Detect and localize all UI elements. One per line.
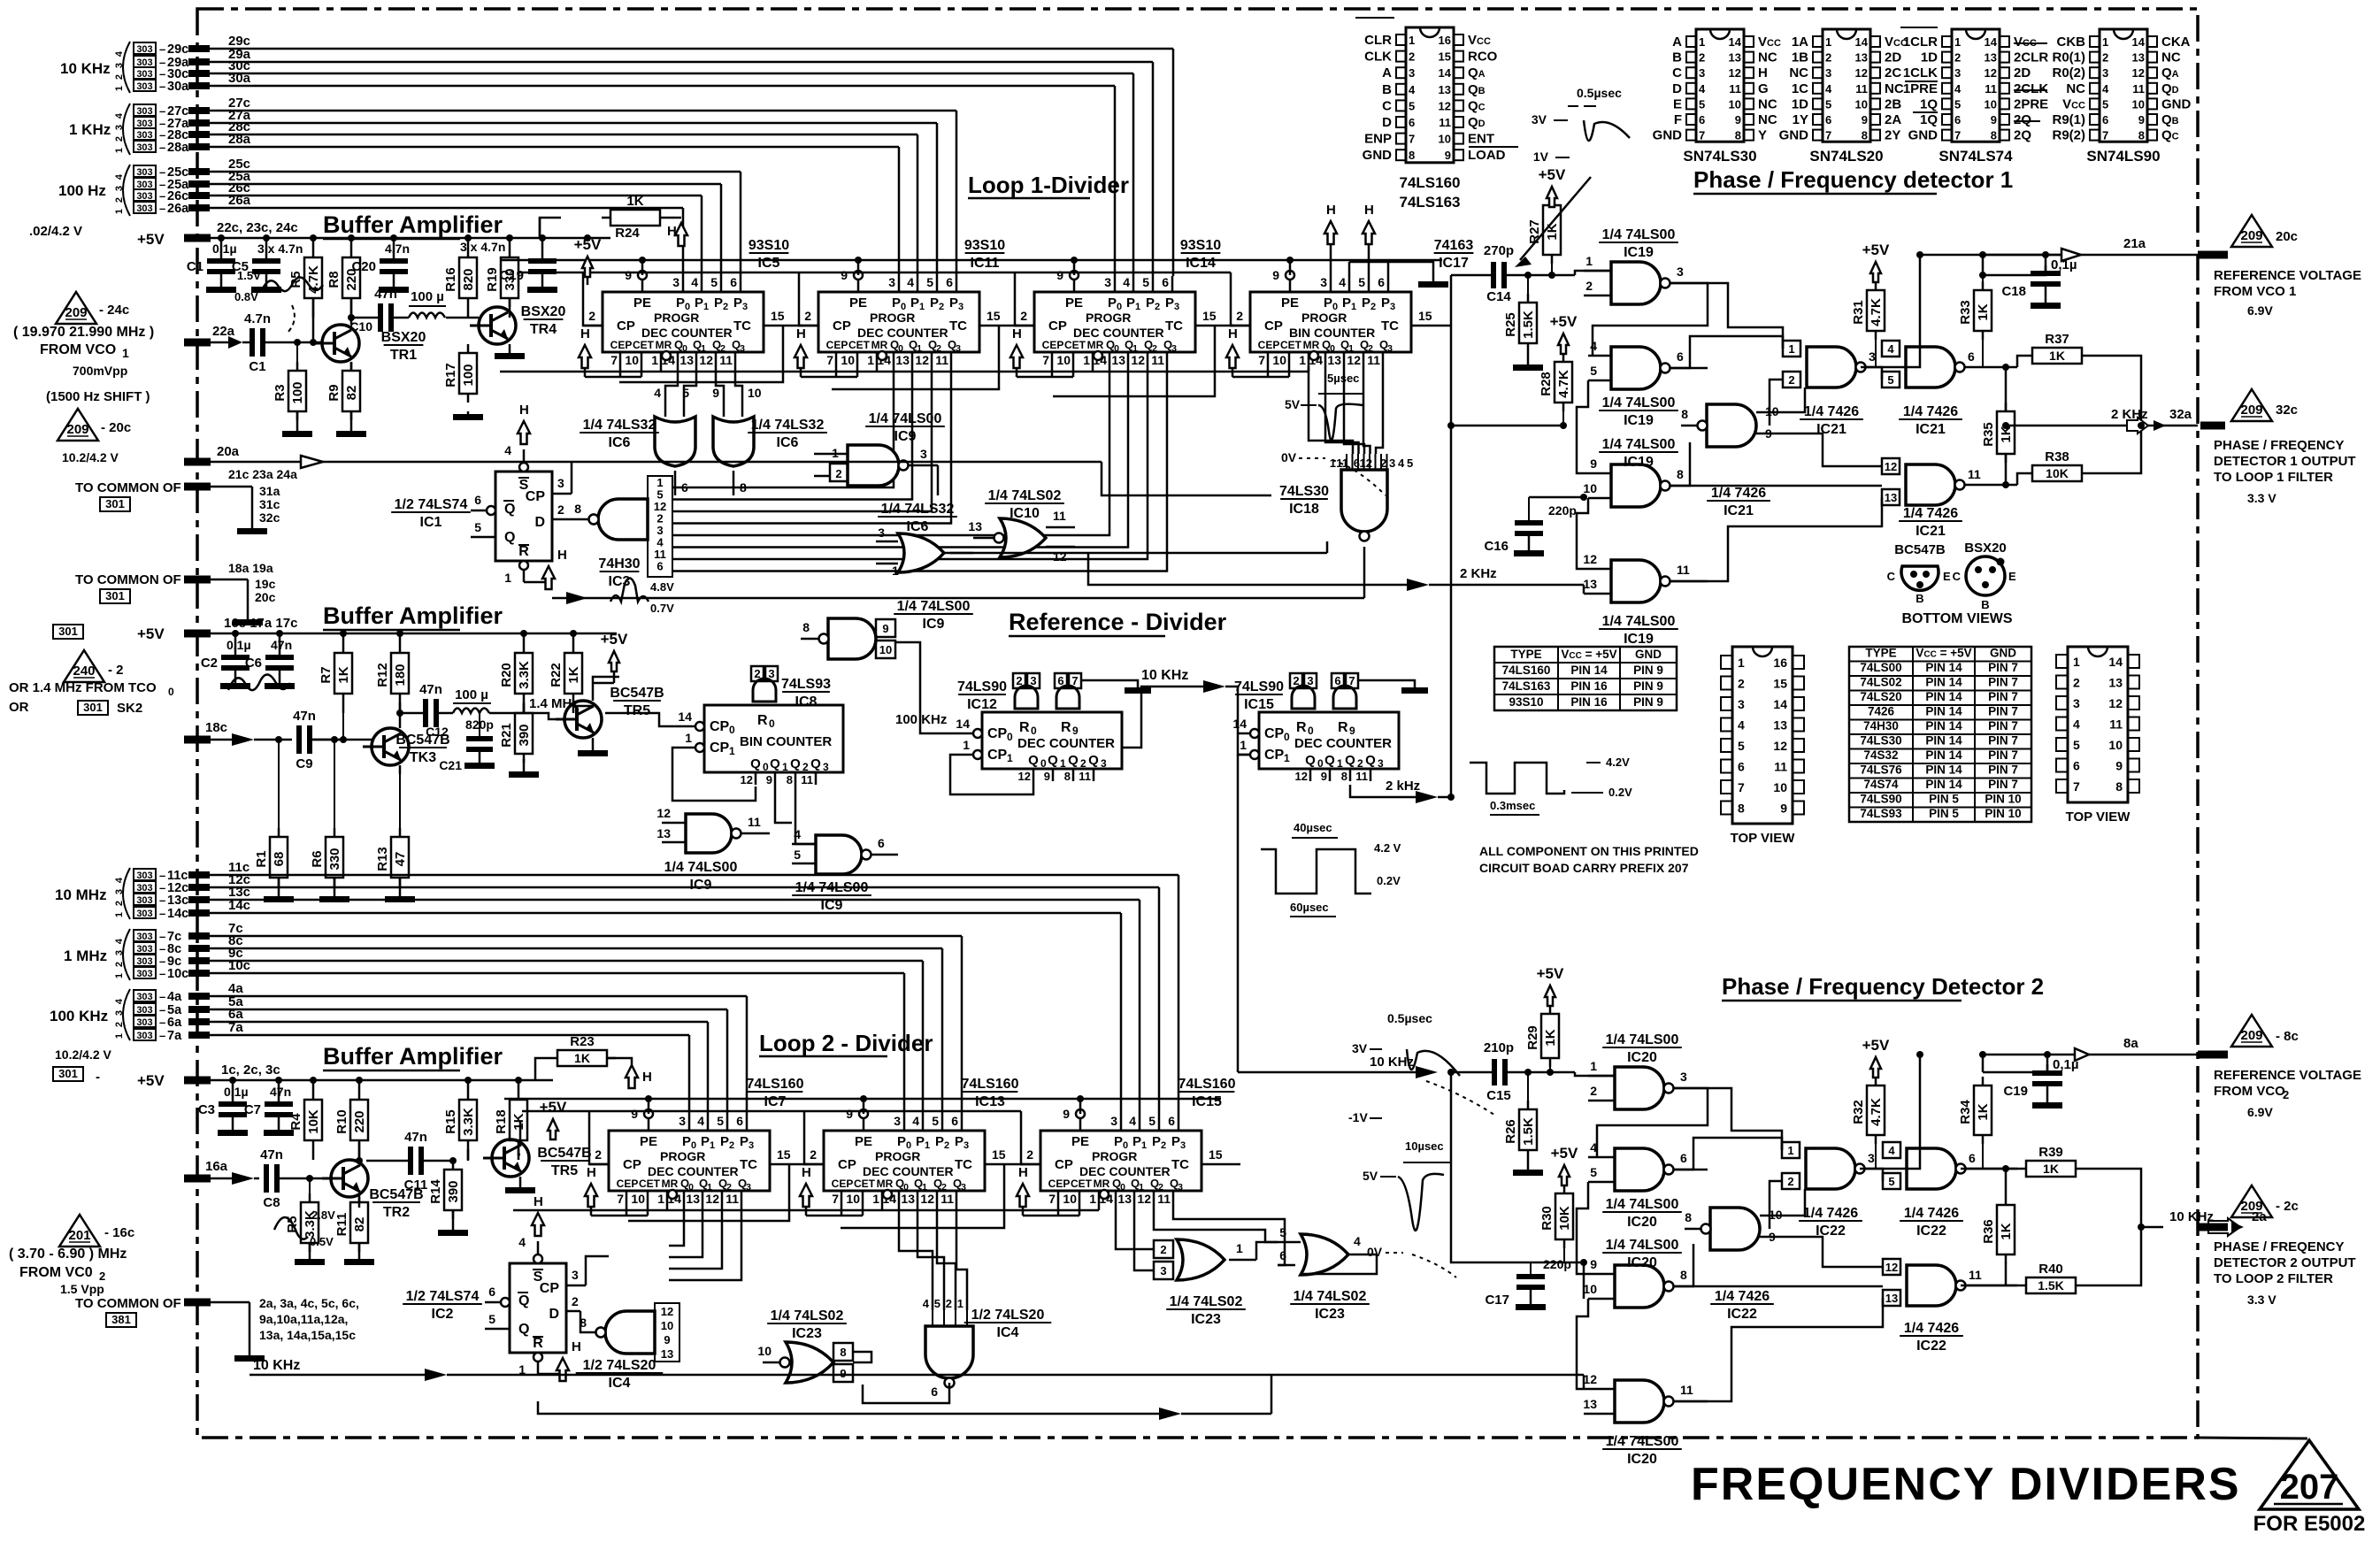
svg-text:CP: CP [1264,748,1285,763]
svg-text:8: 8 [1341,770,1347,783]
handwritten note .02/4.2 V [29,224,82,239]
svg-text:PE: PE [633,295,651,311]
label IC6a [580,418,659,450]
waveform sketch buffer2 [228,674,290,690]
svg-text:16a: 16a [205,1159,228,1174]
svg-text:1/4 74LS02: 1/4 74LS02 [1294,1289,1367,1304]
svg-text:PIN 14: PIN 14 [1925,763,1962,777]
svg-text:303: 303 [136,956,152,967]
svg-text:0: 0 [1007,731,1013,743]
svg-text:SN74LS74: SN74LS74 [1939,148,2013,165]
svg-text:2: 2 [810,1147,817,1162]
svg-text:TC: TC [740,1157,757,1172]
resistor R11 (82) [334,1193,374,1265]
svg-text:P: P [682,1134,691,1149]
svg-text:PROGR: PROGR [1086,311,1131,325]
svg-text:IC6: IC6 [777,435,799,450]
svg-text:3 x 4.7n: 3 x 4.7n [460,240,505,254]
svg-text:–: – [159,894,165,907]
svg-text:OR 1.4 MHz FROM TCO: OR 1.4 MHz FROM TCO [9,680,157,695]
counter IC14 (93S10) [1010,238,1221,377]
svg-text:C18: C18 [2001,284,2026,299]
svg-text:+5V: +5V [601,631,628,648]
svg-text:3: 3 [572,1268,579,1282]
svg-text:R14: R14 [428,1179,443,1204]
svg-text:13: 13 [1111,353,1125,367]
svg-text:TC: TC [955,1157,972,1172]
label IC19a [1599,227,1678,260]
svg-text:1K: 1K [1545,223,1560,240]
nand IC20a [1588,1059,1708,1109]
svg-text:3: 3 [1307,674,1313,687]
svg-text:NC: NC [1789,65,1808,81]
resistor R21 (390) [499,704,539,778]
svg-text:6a: 6a [167,1016,182,1030]
svg-text:12: 12 [1295,770,1308,783]
svg-text:5V: 5V [1285,397,1301,411]
svg-text:2: 2 [804,309,811,323]
to common of 381 [75,1296,359,1362]
svg-text:IC17: IC17 [1439,256,1469,271]
svg-text:9: 9 [846,1107,853,1121]
nand IC20b [1588,1140,1708,1191]
pinout SN74LS20 [1779,29,1908,165]
svg-text:4: 4 [2073,717,2080,732]
svg-text:4.7n: 4.7n [244,311,271,326]
label IC20b [1602,1197,1682,1230]
svg-text:2a, 3a, 4c, 5c, 6c,: 2a, 3a, 4c, 5c, 6c, [259,1296,359,1310]
svg-text:8: 8 [2115,779,2123,794]
svg-text:10µsec: 10µsec [1405,1139,1444,1153]
svg-text:5: 5 [710,275,718,289]
svg-text:–: – [159,881,165,894]
svg-text:13: 13 [1583,1397,1597,1411]
svg-text:9: 9 [1063,1107,1070,1121]
svg-text:1/4 7426: 1/4 7426 [1715,1289,1770,1304]
svg-text:1: 1 [1089,1192,1096,1206]
svg-text:IC19: IC19 [1624,455,1654,470]
input connector 27c [134,96,250,119]
svg-text:PE: PE [1071,1134,1089,1149]
svg-text:CIRCUIT BOAD CARRY PREFIX: CIRCUIT BOAD CARRY PREFIX 207 [1479,861,1689,875]
svg-text:8: 8 [1738,802,1745,816]
svg-text:6: 6 [736,1114,743,1128]
input connector 7c [134,921,243,944]
svg-text:7: 7 [1825,129,1831,142]
svg-text:PIN 10: PIN 10 [1985,793,2021,806]
svg-text:R29: R29 [1525,1025,1540,1050]
svg-text:2: 2 [114,962,125,967]
label IC23a [767,1308,847,1341]
svg-text:–: – [159,930,165,943]
svg-text:1: 1 [710,1140,715,1151]
svg-text:301: 301 [58,625,78,638]
wire 4a bus [199,996,747,1115]
svg-text:3: 3 [894,1114,901,1128]
svg-text:CET: CET [854,1178,876,1190]
svg-text:4: 4 [114,938,125,944]
svg-text:R: R [1296,720,1307,735]
label IC22m [1710,1289,1774,1322]
wire 10c bus [199,973,904,1115]
svg-text:7426: 7426 [1868,705,1895,718]
svg-text:15: 15 [1209,1147,1223,1162]
svg-text:301: 301 [105,589,125,602]
svg-text:14: 14 [2108,655,2123,669]
svg-text:PE: PE [1281,295,1299,311]
svg-text:7: 7 [1699,129,1705,142]
svg-text:1/4 74LS02: 1/4 74LS02 [771,1308,844,1323]
svg-text:2: 2 [1370,302,1376,312]
svg-text:C3: C3 [198,1102,215,1117]
svg-text:R35: R35 [1981,422,1996,447]
svg-text:PIN 14: PIN 14 [1570,664,1608,677]
nand IC9a (1/4 74LS00) [814,445,938,495]
svg-text:8: 8 [740,480,747,495]
svg-text:2: 2 [729,1140,734,1151]
svg-text:5: 5 [1358,275,1365,289]
svg-text:+5V: +5V [137,625,165,642]
svg-text:PIN 7: PIN 7 [1988,748,2018,762]
svg-text:IC8: IC8 [795,694,818,710]
wire Q bundle IC13 [899,1205,967,1310]
wire TR5 out to IC8 [593,677,619,683]
svg-text:15: 15 [987,309,1001,323]
svg-text:303: 303 [136,969,152,979]
svg-text:1: 1 [1409,34,1415,47]
svg-text:12: 12 [705,1192,719,1206]
svg-text:207: 207 [2280,1468,2339,1507]
wire IC1 CP from 20a [571,462,573,494]
svg-text:IC10: IC10 [1010,506,1040,521]
capacitor C16 (220p) [1484,497,1576,556]
capacitor C8 (47n) [260,1147,324,1210]
capacitor C7 (47n) [244,1080,294,1136]
svg-text:R0(2): R0(2) [2052,65,2085,81]
resistor R5b (3.3K) [285,1178,325,1265]
svg-text:PIN 14: PIN 14 [1925,748,1962,762]
svg-text:8: 8 [1677,467,1684,481]
nor IC23b (1/4 74LS02) [1154,1239,1256,1280]
svg-text:5: 5 [1699,97,1705,111]
svg-text:R: R [518,544,529,559]
svg-text:2: 2 [939,302,944,312]
svg-text:C15: C15 [1486,1088,1511,1103]
resistor R24 (1K) [540,194,687,246]
svg-text:16: 16 [1439,34,1451,47]
wire 29c bus [199,49,1173,276]
svg-text:9: 9 [1445,149,1451,162]
svg-text:13c: 13c [167,894,188,908]
svg-text:13: 13 [895,353,910,367]
svg-text:CET: CET [1280,339,1302,351]
svg-text:1.4 MHz: 1.4 MHz [529,696,579,711]
svg-text:TO COMMON OF: TO COMMON OF [75,480,181,495]
svg-text:R: R [757,713,768,728]
svg-text:1.5V: 1.5V [237,269,261,282]
waveform sketch near TR1 [234,269,323,334]
svg-text:IC18: IC18 [1289,502,1319,517]
svg-text:–: – [159,128,165,142]
border corner notch [2198,1438,2307,1438]
svg-text:12: 12 [2132,66,2145,80]
wire R35 links [2002,364,2009,488]
svg-text:C8: C8 [263,1195,280,1210]
group label 10 KHz [60,60,111,77]
svg-text:PROGR: PROGR [1092,1149,1137,1163]
svg-text:PIN 16: PIN 16 [1570,679,1608,693]
svg-text:10.2/4.2 V: 10.2/4.2 V [62,450,119,464]
nand IC21a (1/4 7426) [1783,341,1906,387]
input connector 12c [134,872,250,895]
counter IC11 (93S10) [795,238,1005,377]
svg-text:CEP: CEP [1042,339,1064,351]
svg-text:1D: 1D [1792,96,1808,111]
svg-text:0,1µ: 0,1µ [226,638,251,652]
svg-text:1: 1 [1351,302,1356,312]
input connector 13c [134,885,250,908]
resistor R38 (10K) horizontal [2023,449,2091,481]
svg-text:700mVpp: 700mVpp [73,364,127,378]
svg-text:H: H [1326,203,1336,218]
resistor R31 (4.7K) [1851,242,1890,367]
svg-text:.02/4.2 V: .02/4.2 V [29,224,82,239]
svg-text:0: 0 [1040,757,1047,770]
svg-text:12: 12 [1018,770,1031,783]
svg-text:Q: Q [790,756,801,771]
svg-text:8: 8 [1064,770,1071,783]
svg-text:C20: C20 [351,259,376,274]
wire 26a bus [199,208,683,276]
nand IC21b (1/4 7426) [1882,341,2017,387]
svg-text:SN74LS30: SN74LS30 [1683,148,1756,165]
svg-text:PIN 5: PIN 5 [1929,793,1959,806]
input connector 14c [134,898,250,921]
svg-text:2: 2 [1825,51,1831,65]
capacitor C9 (47n) [293,709,343,771]
svg-text:6: 6 [1969,1151,1976,1165]
svg-text:BSX20: BSX20 [1964,541,2007,556]
svg-text:12: 12 [656,806,671,820]
resistor R4 (10K) [288,1080,322,1160]
svg-text:4: 4 [1699,82,1706,96]
svg-text:C21: C21 [439,758,462,772]
svg-text:PIN 7: PIN 7 [1988,763,2018,777]
svg-text:5: 5 [1148,1114,1155,1128]
svg-text:4: 4 [114,112,125,119]
svg-text:7: 7 [617,1192,624,1206]
svg-text:9: 9 [1044,770,1050,783]
wire Q bundle IC7 [669,1205,741,1280]
svg-text:6: 6 [1738,760,1745,774]
svg-text:6: 6 [488,1285,495,1299]
input connector 28c [134,119,250,142]
svg-text:12: 12 [1985,66,1997,80]
IC3 input pin column [648,476,672,577]
svg-text:47n: 47n [404,1130,427,1145]
resistor R23 (1K) [535,1034,652,1088]
svg-text:9: 9 [1735,113,1741,127]
svg-text:11: 11 [1968,467,1981,481]
svg-text:1/4 74LS32: 1/4 74LS32 [751,418,825,433]
svg-text:IC11: IC11 [971,256,1000,271]
svg-text:11: 11 [801,773,813,786]
capacitor C21 (820p) [439,713,495,772]
svg-text:B: B [1382,82,1392,97]
svg-text:6: 6 [681,480,688,495]
dip16 top view [1721,647,1804,846]
svg-text:R7: R7 [319,666,334,683]
svg-text:303: 303 [136,203,152,214]
svg-text:CET: CET [1064,339,1086,351]
svg-text:TK3: TK3 [410,750,436,765]
svg-text:TO COMMON OF: TO COMMON OF [75,1296,181,1311]
svg-text:A: A [1672,35,1682,50]
svg-text:7: 7 [832,1192,839,1206]
svg-text:2: 2 [1020,309,1027,323]
svg-text:10: 10 [1583,481,1597,495]
svg-text:P: P [1324,295,1332,311]
svg-text:SN74LS20: SN74LS20 [1809,148,1883,165]
svg-text:Q: Q [1028,753,1039,768]
title Phase / Frequency Detector 2 [1722,973,2044,1001]
svg-text:303: 303 [136,167,152,178]
svg-text:C: C [1382,98,1392,113]
svg-text:12: 12 [661,1305,673,1318]
svg-text:10: 10 [846,1192,860,1206]
svg-text:6: 6 [1334,674,1340,687]
svg-text:74LS90: 74LS90 [1860,793,1901,806]
svg-text:NC: NC [1758,96,1777,111]
svg-text:7: 7 [1042,353,1049,367]
svg-text:3: 3 [1738,697,1745,711]
svg-text:3: 3 [114,1010,125,1016]
svg-text:H: H [1012,326,1022,341]
svg-text:3: 3 [1174,302,1179,312]
svg-text:5: 5 [1590,364,1597,378]
bracket digits [114,165,130,216]
svg-text:PIN 14: PIN 14 [1925,719,1962,733]
nand IC20d [1583,1372,1708,1423]
bottom views transistor pinouts [1887,541,2016,626]
svg-text:TO LOOP 1 FILTER: TO LOOP 1 FILTER [2214,470,2333,485]
svg-text:IC20: IC20 [1627,1215,1657,1230]
svg-text:6: 6 [931,1385,938,1399]
transistor TR5b (BC547B) [483,1122,592,1193]
svg-text:0.3msec: 0.3msec [1490,799,1535,812]
svg-text:P: P [1146,295,1155,311]
counter IC13 (74LS160) [800,1077,1019,1216]
svg-text:3V: 3V [1532,112,1547,127]
svg-text:6: 6 [1409,116,1415,129]
svg-text:R4: R4 [288,1113,303,1131]
svg-text:E: E [1673,96,1682,111]
capacitor C1 bypass (0,1u) [187,238,237,293]
svg-text:C: C [1953,570,1962,583]
svg-text:2: 2 [754,667,760,680]
svg-text:–: – [159,907,165,920]
svg-text:3: 3 [2102,66,2108,80]
svg-text:2: 2 [1590,1084,1597,1098]
bracket digits [114,42,130,93]
pinout SN74LS74 [1900,27,2048,165]
svg-text:1/4 74LS32: 1/4 74LS32 [881,502,955,517]
capacitor C10 (47n) [349,287,409,334]
wire IC4b output [863,1385,949,1403]
svg-text:2: 2 [1409,50,1415,64]
svg-text:2: 2 [114,74,125,80]
svg-text:16: 16 [1773,656,1787,670]
svg-text:100 KHz: 100 KHz [50,1008,108,1024]
svg-text:1: 1 [114,1033,125,1039]
svg-text:–: – [159,1003,165,1016]
svg-text:12: 12 [741,773,753,786]
svg-text:( 19.970 21.990 MHz ): ( 19.970 21.990 MHz ) [13,325,154,340]
svg-text:1: 1 [114,973,125,978]
label IC23d [1290,1289,1370,1322]
svg-text:1: 1 [114,86,125,91]
resistor R14 (390) [428,1161,468,1236]
svg-text:2: 2 [1788,373,1794,387]
svg-text:H: H [1228,326,1238,341]
svg-text:47n: 47n [260,1147,283,1162]
svg-text:303: 303 [136,106,152,117]
svg-text:IC20: IC20 [1627,1452,1657,1467]
svg-text:3: 3 [679,1114,686,1128]
svg-text:IC13: IC13 [975,1094,1005,1109]
svg-text:12: 12 [1885,460,1897,473]
svg-text:BC547B: BC547B [610,686,664,701]
svg-text:74LS163: 74LS163 [1400,194,1461,211]
svg-text:1K: 1K [2043,1162,2059,1176]
svg-text:28a: 28a [167,141,189,155]
svg-text:0.5µsec: 0.5µsec [1387,1011,1432,1025]
wire 5a bus [199,1009,727,1115]
svg-text:1: 1 [114,148,125,153]
svg-text:–: – [159,42,165,56]
svg-text:4: 4 [1738,718,1745,733]
svg-text:10: 10 [631,1192,645,1206]
svg-text:303: 303 [136,932,152,942]
table power pins 2 [1849,647,2031,823]
svg-text:10c: 10c [167,967,188,981]
svg-text:–: – [159,869,165,882]
svg-text:10: 10 [2132,97,2145,111]
input triangle 240 [9,650,174,716]
svg-text:R26: R26 [1503,1119,1518,1144]
svg-text:FROM VCO 1: FROM VCO 1 [2214,284,2296,299]
svg-text:Q: Q [1068,753,1079,768]
svg-text:P: P [1114,1134,1123,1149]
resistor R34 (1K) [1958,1077,1992,1169]
svg-text:1: 1 [1788,342,1794,356]
svg-text:3: 3 [920,447,927,461]
svg-text:10 KHz: 10 KHz [253,1358,300,1373]
svg-text:270p: 270p [1484,243,1514,258]
capacitor C18 (0,1u) [2001,255,2077,309]
wire Q bundle IC15 [1116,1205,1285,1270]
svg-text:301: 301 [105,497,125,510]
svg-text:100 µ: 100 µ [411,289,444,304]
svg-text:3: 3 [1387,343,1393,354]
svg-text:1: 1 [1141,1140,1147,1151]
svg-text:1: 1 [1699,35,1705,49]
svg-text:1: 1 [703,302,709,312]
svg-text:10: 10 [757,1344,772,1358]
svg-text:3.3K: 3.3K [517,661,532,689]
svg-text:R15: R15 [443,1109,458,1134]
svg-text:10: 10 [1063,1192,1077,1206]
